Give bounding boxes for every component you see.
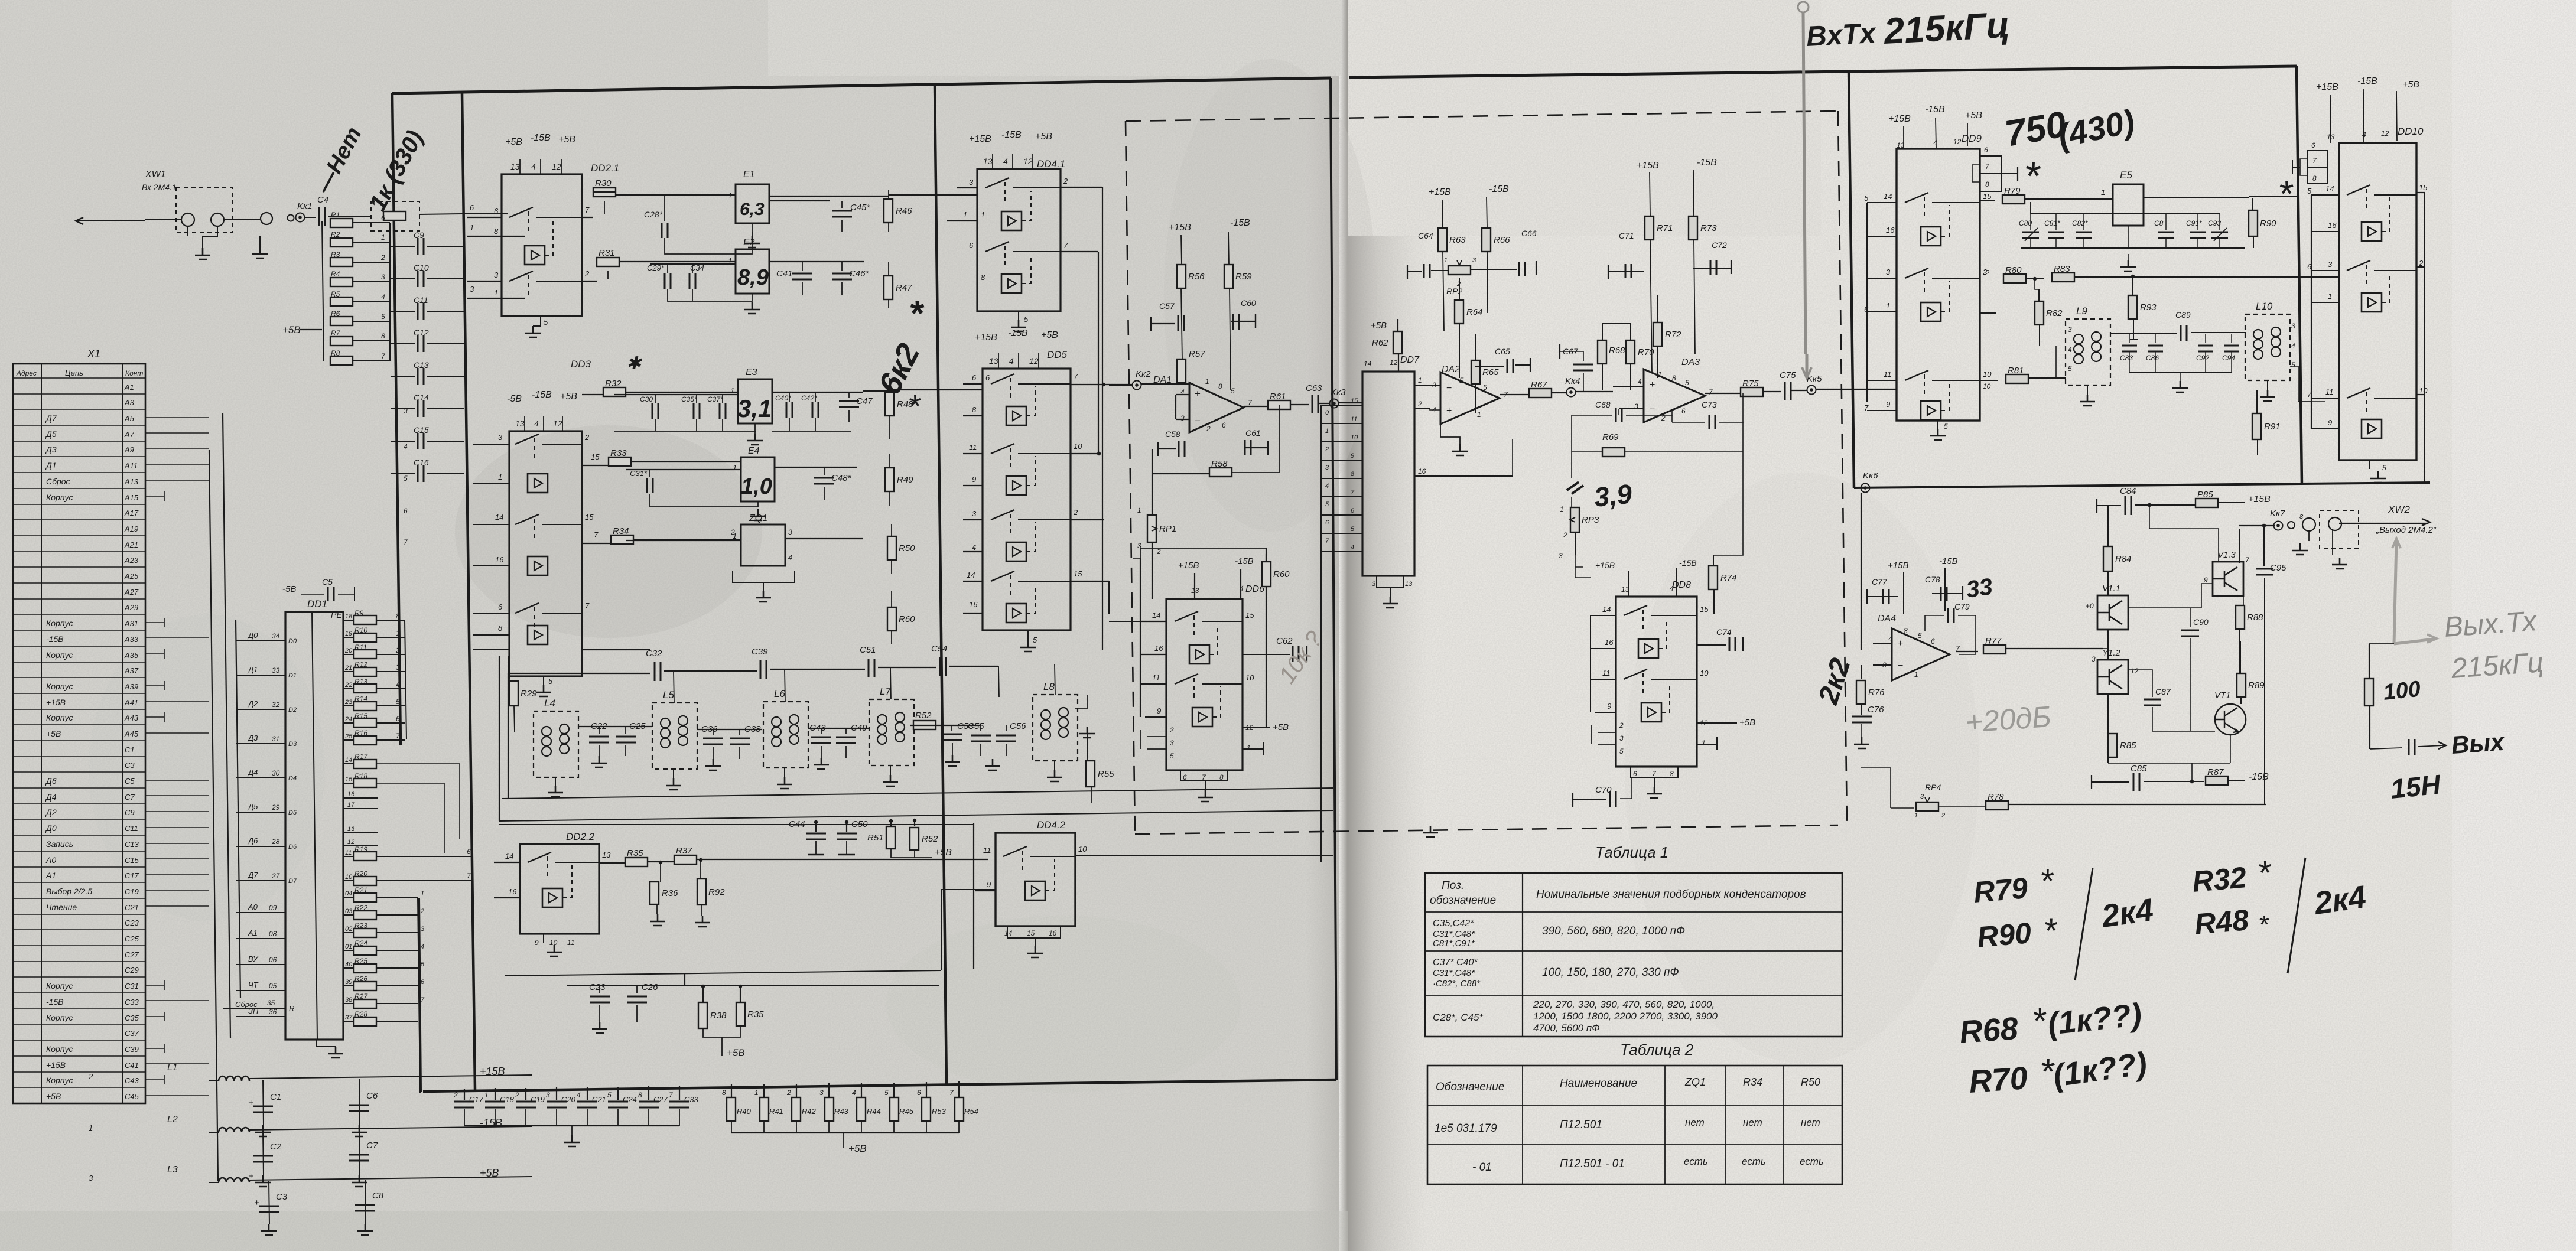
svg-text:3: 3 <box>1619 734 1624 742</box>
svg-text:5: 5 <box>1231 387 1235 395</box>
svg-text:9: 9 <box>1351 452 1354 460</box>
svg-text:6: 6 <box>1633 770 1637 778</box>
svg-text:С89: С89 <box>2175 310 2191 320</box>
crystal ZQ1 <box>626 513 863 602</box>
svg-text:R85: R85 <box>2120 741 2136 751</box>
svg-text:5: 5 <box>381 312 385 321</box>
svg-text:2: 2 <box>1619 721 1624 729</box>
svg-text:6: 6 <box>381 214 385 222</box>
svg-text:3: 3 <box>498 433 503 442</box>
capacitors C43 C49 <box>808 723 869 769</box>
svg-text:R90: R90 <box>1976 916 2032 954</box>
svg-text:L2: L2 <box>167 1115 178 1125</box>
resistor R60 at DD6 <box>1266 554 1267 562</box>
svg-text:8: 8 <box>2312 174 2317 183</box>
svg-text:С35: С35 <box>125 1014 139 1022</box>
svg-text:5: 5 <box>544 318 548 327</box>
svg-text:+5В: +5В <box>46 729 61 738</box>
svg-text:5: 5 <box>1325 501 1329 508</box>
svg-text:R32: R32 <box>605 379 622 389</box>
svg-text:С74: С74 <box>1716 627 1732 637</box>
svg-text:Д6: Д6 <box>247 836 258 845</box>
connector XW1 contacts <box>145 188 260 259</box>
svg-text:+5В: +5В <box>282 324 301 335</box>
svg-text:Корпус: Корпус <box>46 493 73 502</box>
capacitors C40* C42* C47 <box>772 392 873 431</box>
svg-text:R63: R63 <box>1449 235 1466 245</box>
svg-text:Чтение: Чтение <box>46 903 77 912</box>
svg-text:3: 3 <box>1170 739 1174 747</box>
svg-text:Kк4: Kк4 <box>1565 376 1580 386</box>
capacitors C23 C26 <box>589 982 658 1033</box>
svg-text:2: 2 <box>786 1089 791 1097</box>
svg-text:-15В: -15В <box>1697 158 1717 168</box>
svg-text:+15В: +15В <box>975 333 997 343</box>
svg-text:5: 5 <box>884 1089 889 1097</box>
svg-text:12: 12 <box>553 419 562 428</box>
svg-text:16: 16 <box>495 555 504 564</box>
svg-text:8: 8 <box>972 405 977 414</box>
svg-text:4: 4 <box>1638 377 1642 386</box>
wire RP3 to DD8 <box>1575 555 1583 567</box>
svg-text:С19: С19 <box>125 887 139 896</box>
svg-text:4: 4 <box>404 442 408 451</box>
right sheet frame bottom edge <box>1854 483 2430 488</box>
svg-text:34: 34 <box>272 632 280 640</box>
svg-text:14: 14 <box>1004 929 1013 937</box>
svg-text:С37: С37 <box>125 1029 139 1038</box>
transistor V1.2 <box>2097 660 2128 694</box>
svg-text:-5В: -5В <box>282 584 296 594</box>
top chain wire with C32 C39 C51 C54 <box>508 644 999 697</box>
svg-text:3: 3 <box>1559 552 1563 560</box>
svg-text:R10: R10 <box>354 626 367 634</box>
svg-text:1: 1 <box>2101 188 2105 197</box>
svg-text:2: 2 <box>1063 177 1068 185</box>
wire V1 chain <box>2103 569 2108 763</box>
svg-text:5: 5 <box>1033 636 1037 644</box>
svg-text:V1.3: V1.3 <box>2217 550 2236 560</box>
svg-text:1е5 031.179: 1е5 031.179 <box>1435 1122 1497 1135</box>
svg-text:С1: С1 <box>125 745 135 754</box>
svg-text:С17: С17 <box>469 1095 484 1104</box>
svg-text:4: 4 <box>1933 139 1937 147</box>
svg-text:Kк3: Kк3 <box>1331 387 1346 398</box>
svg-text:+15В: +15В <box>2316 82 2338 92</box>
svg-text:С20: С20 <box>561 1095 576 1104</box>
svg-text:Наименование: Наименование <box>1560 1077 1637 1090</box>
svg-text:4700, 5600 пФ: 4700, 5600 пФ <box>1533 1022 1600 1034</box>
svg-text:L6: L6 <box>774 688 785 699</box>
svg-text:1: 1 <box>1247 744 1251 752</box>
svg-text:L7: L7 <box>880 686 891 697</box>
IC DD3 <box>473 359 594 696</box>
svg-text:DD2.1: DD2.1 <box>591 162 619 174</box>
resistor R64 <box>1459 278 1460 301</box>
svg-text:3: 3 <box>1372 581 1376 588</box>
resistor R69 feedback <box>1572 415 1743 457</box>
svg-text:3: 3 <box>494 271 499 279</box>
svg-text:DD2.2: DD2.2 <box>566 831 595 842</box>
svg-text:1: 1 <box>1137 506 1141 514</box>
svg-text:R52: R52 <box>922 834 938 844</box>
svg-text:VT1: VT1 <box>2214 690 2231 701</box>
svg-text:С44: С44 <box>789 819 805 829</box>
svg-text:R68: R68 <box>1609 346 1625 356</box>
resistor R35b R37 R36 R92 cluster <box>599 846 988 927</box>
svg-text:DD7: DD7 <box>1400 355 1420 365</box>
svg-text:R36: R36 <box>662 888 678 898</box>
svg-text:R34: R34 <box>613 526 629 536</box>
svg-text:С35*: С35* <box>681 395 697 403</box>
svg-text:6: 6 <box>396 715 400 723</box>
handwritten R68 R70 notes <box>1959 997 2149 1100</box>
svg-text:Таблица 2: Таблица 2 <box>1620 1041 1694 1058</box>
svg-text:А5: А5 <box>124 414 135 423</box>
dashed selection box around middle section <box>1126 111 1838 121</box>
resistor R74 <box>1713 555 1714 566</box>
svg-text:14: 14 <box>1884 192 1892 201</box>
svg-text:Е2: Е2 <box>743 237 755 247</box>
svg-text:С37* С40*: С37* С40* <box>1433 957 1478 967</box>
svg-text:С36: С36 <box>701 724 718 734</box>
inductor L8 <box>1033 664 1095 781</box>
svg-text:А9: А9 <box>124 445 134 454</box>
svg-text:2к4: 2к4 <box>2311 879 2368 921</box>
svg-text:1: 1 <box>1205 377 1209 386</box>
svg-text:10: 10 <box>1078 845 1087 853</box>
svg-text:С63: С63 <box>1306 383 1322 393</box>
svg-text:+5В: +5В <box>727 1047 745 1058</box>
svg-text:22: 22 <box>344 682 352 689</box>
svg-text:3: 3 <box>2328 260 2333 269</box>
svg-text:1: 1 <box>1914 670 1918 679</box>
svg-text:С41: С41 <box>125 1061 139 1070</box>
capacitor C3 <box>269 1181 269 1224</box>
resistor R* optional dashed <box>371 201 508 231</box>
resistor R84 <box>2103 546 2112 571</box>
svg-text:Вх 2М4.1: Вх 2М4.1 <box>142 183 177 192</box>
svg-text:С3: С3 <box>276 1192 288 1202</box>
svg-text:А19: А19 <box>124 524 138 533</box>
svg-text:100: 100 <box>2382 677 2422 705</box>
IC DD2.2 <box>494 831 611 956</box>
svg-text:+: + <box>1195 388 1201 399</box>
svg-text:R29: R29 <box>521 689 537 699</box>
svg-text:С84: С84 <box>2120 486 2136 496</box>
svg-text:А7: А7 <box>124 430 135 439</box>
svg-text:D1: D1 <box>288 672 297 679</box>
resistor R33 <box>609 457 631 466</box>
transistor V1.1 <box>2097 595 2128 630</box>
svg-text:R55: R55 <box>1098 769 1114 779</box>
svg-text:1: 1 <box>381 233 385 242</box>
filter E4 <box>733 446 775 501</box>
svg-text:V1.1: V1.1 <box>2102 584 2120 594</box>
resistor R55 <box>1086 761 1095 787</box>
svg-text:6: 6 <box>404 507 408 515</box>
svg-text:R89: R89 <box>2248 680 2265 690</box>
DA2 ground bracket <box>1440 423 1460 444</box>
svg-text:3: 3 <box>819 1089 824 1097</box>
svg-text:+: + <box>248 1098 253 1108</box>
svg-text:С23: С23 <box>589 982 606 992</box>
pencil label Vyh Tx 215kHz <box>2443 605 2545 685</box>
svg-text:+5В: +5В <box>480 1167 499 1179</box>
svg-text:1: 1 <box>1477 411 1481 419</box>
svg-text:R34: R34 <box>1743 1076 1762 1088</box>
svg-text:Д1: Д1 <box>45 461 57 470</box>
node Kk7 and XW2 connector <box>2239 504 2437 569</box>
svg-text:7: 7 <box>1351 489 1355 496</box>
svg-text:С8: С8 <box>2154 219 2164 227</box>
svg-text:Д7: Д7 <box>45 413 57 423</box>
svg-text:С5: С5 <box>322 577 333 587</box>
svg-text:4: 4 <box>1432 406 1436 414</box>
resistors R17 R18 <box>343 752 460 853</box>
resistors R68 R70 R72 <box>1598 295 1681 390</box>
svg-text:8: 8 <box>1218 382 1222 390</box>
ground E2 <box>744 302 760 314</box>
wire lower horizontal second <box>567 985 939 986</box>
svg-text:DD8: DD8 <box>1672 580 1691 590</box>
svg-text:А25: А25 <box>124 572 139 581</box>
wire DD8 input route <box>1575 567 1591 712</box>
capacitor C28* <box>644 195 752 254</box>
svg-text:С31*,С48*: С31*,С48* <box>1433 968 1475 978</box>
svg-text:2: 2 <box>88 1072 93 1081</box>
svg-text:R19: R19 <box>354 845 367 853</box>
svg-text:7: 7 <box>585 206 590 214</box>
svg-text:12: 12 <box>1029 356 1039 366</box>
svg-text:R31: R31 <box>599 248 615 258</box>
svg-text:10: 10 <box>345 874 353 881</box>
svg-text:С91*: С91* <box>2186 219 2202 227</box>
svg-text:1: 1 <box>470 223 474 232</box>
resistor bank R40-R45 R53 R54 <box>722 1081 978 1154</box>
svg-text:29: 29 <box>271 803 280 812</box>
svg-text:ВУ: ВУ <box>248 954 259 963</box>
svg-text:11: 11 <box>1351 416 1357 423</box>
svg-text:5: 5 <box>1944 422 1948 431</box>
svg-text:10: 10 <box>2419 386 2428 395</box>
svg-text:R84: R84 <box>2115 554 2132 564</box>
svg-text:31: 31 <box>272 735 279 743</box>
svg-text:D0: D0 <box>288 638 297 645</box>
potentiometer RP1 <box>1137 474 1176 599</box>
svg-text:15: 15 <box>2419 183 2428 192</box>
svg-text:8,9: 8,9 <box>737 265 769 290</box>
svg-text:6: 6 <box>470 203 474 212</box>
svg-text:8: 8 <box>498 624 503 633</box>
long wire chain output <box>502 788 1333 799</box>
svg-text:+: + <box>254 1198 259 1208</box>
svg-text:С93: С93 <box>2208 219 2221 227</box>
svg-text:С60: С60 <box>1241 298 1256 308</box>
resistors R56 R59 with supplies <box>1169 218 1252 390</box>
svg-text:1: 1 <box>963 210 967 219</box>
svg-text:10: 10 <box>1983 382 1991 390</box>
potentiometer RP3 <box>1559 505 1599 560</box>
svg-text:С42*: С42* <box>801 394 817 402</box>
resistor R91 <box>2256 390 2258 413</box>
svg-text:1: 1 <box>89 1123 93 1132</box>
svg-text:11: 11 <box>1152 673 1160 682</box>
capacitor bank C9-C16 <box>391 230 464 546</box>
svg-text:С31*,С48*: С31*,С48* <box>1433 929 1475 939</box>
node Kk3 <box>1330 399 1339 408</box>
svg-text:12: 12 <box>2381 129 2389 138</box>
svg-text:А13: А13 <box>124 477 139 486</box>
svg-text:5: 5 <box>1170 752 1174 760</box>
svg-text:Конт: Конт <box>125 369 143 377</box>
svg-text:D3: D3 <box>288 741 297 748</box>
svg-text:R60: R60 <box>1273 569 1290 579</box>
svg-text:3: 3 <box>2092 655 2096 663</box>
capacitor C95 <box>2256 524 2286 804</box>
svg-text:·С82*, С88*: ·С82*, С88* <box>1433 979 1481 989</box>
svg-text:3: 3 <box>1472 257 1476 264</box>
capacitor C2 <box>263 1131 264 1175</box>
svg-text:D4: D4 <box>288 775 297 782</box>
svg-text:С17: С17 <box>125 871 139 880</box>
resistor R49 <box>885 468 894 491</box>
svg-text:5: 5 <box>421 961 425 968</box>
svg-text:3: 3 <box>1325 464 1329 471</box>
svg-text:R56: R56 <box>1188 272 1205 282</box>
long wire pair A <box>499 810 1333 821</box>
svg-text:С46*: С46* <box>849 269 870 279</box>
resistor R76 capacitor C76 <box>1852 665 1885 748</box>
capacitor row C80 C81 C82 C88 C91 C93 <box>2019 202 2245 271</box>
svg-text:9: 9 <box>1157 706 1161 715</box>
svg-text:20: 20 <box>344 647 353 654</box>
svg-text:С80: С80 <box>2019 219 2032 227</box>
wire to DD4.2 pin9 route <box>505 970 941 976</box>
svg-text:-15В: -15В <box>1925 105 1945 115</box>
svg-text:С31: С31 <box>125 982 139 991</box>
contact small circle <box>288 215 294 221</box>
svg-text:С78: С78 <box>1925 575 1940 584</box>
svg-text:С45: С45 <box>125 1092 139 1101</box>
svg-text:+5В: +5В <box>2402 80 2419 90</box>
svg-text:Сброс: Сброс <box>235 1000 258 1009</box>
op-amp DA3 <box>1613 357 1713 422</box>
svg-text:R50: R50 <box>1801 1076 1820 1088</box>
svg-text:6: 6 <box>1351 507 1355 514</box>
svg-text:С31*: С31* <box>630 469 648 478</box>
svg-text:5: 5 <box>1024 315 1029 324</box>
svg-text:10: 10 <box>549 939 558 947</box>
svg-text:+0: +0 <box>2086 602 2094 610</box>
svg-text:+5В: +5В <box>935 848 952 858</box>
svg-text:Kк7: Kк7 <box>2270 509 2285 519</box>
svg-text:ZQ1: ZQ1 <box>1684 1076 1706 1088</box>
wires DD4.1 outputs to right bus <box>1061 187 1105 650</box>
svg-text:С39: С39 <box>752 647 768 657</box>
svg-text:1: 1 <box>1886 301 1890 310</box>
left sheet frame left vertical A <box>392 93 401 745</box>
capacitor C1 <box>263 1080 264 1125</box>
svg-text:DD3: DD3 <box>571 359 591 370</box>
svg-text:3: 3 <box>470 285 474 294</box>
svg-text:25: 25 <box>344 733 353 740</box>
svg-text:С19: С19 <box>531 1095 545 1104</box>
svg-text:L8: L8 <box>1043 681 1055 692</box>
svg-text:Вых: Вых <box>2450 728 2506 759</box>
svg-text:+: + <box>1898 638 1903 649</box>
svg-text:23: 23 <box>344 699 353 706</box>
svg-text:R52: R52 <box>915 711 932 721</box>
svg-text:5: 5 <box>548 677 553 686</box>
resistors R71 R73 supplies DA3 <box>1637 158 1717 372</box>
svg-text:Корпус: Корпус <box>46 650 73 660</box>
svg-text:1: 1 <box>498 473 502 481</box>
svg-text:Д4: Д4 <box>247 768 258 777</box>
svg-text:-15В: -15В <box>1489 184 1509 194</box>
svg-text:2: 2 <box>1325 446 1329 453</box>
svg-text:R4: R4 <box>331 270 340 278</box>
svg-text:ЧТ: ЧТ <box>248 980 259 989</box>
resistor R30 <box>582 217 593 218</box>
wire V1.3 collector to Kk7 <box>2128 529 2243 608</box>
svg-text:Обозначение: Обозначение <box>1436 1081 1504 1093</box>
svg-text:10: 10 <box>1983 370 1992 379</box>
transistor VT1 <box>2214 690 2246 735</box>
svg-text:2: 2 <box>1417 400 1422 408</box>
X1 table row stub wires <box>145 418 209 1096</box>
svg-text:R72: R72 <box>1665 330 1681 340</box>
svg-text:Д5: Д5 <box>45 429 57 439</box>
svg-text:16: 16 <box>508 887 517 896</box>
svg-text:А21: А21 <box>124 540 138 549</box>
svg-text:С32: С32 <box>646 649 662 659</box>
capacitor C63 <box>1312 395 1318 413</box>
svg-text:R61: R61 <box>1270 392 1286 402</box>
svg-text:С12: С12 <box>414 328 429 337</box>
svg-text:2: 2 <box>1169 726 1174 734</box>
svg-text:15: 15 <box>591 452 600 461</box>
resistor R61 <box>1244 406 1268 407</box>
svg-text:R5: R5 <box>331 290 340 298</box>
svg-text:R40: R40 <box>737 1107 752 1116</box>
svg-text:R67: R67 <box>1531 380 1547 390</box>
svg-text:37: 37 <box>345 1014 353 1021</box>
svg-text:R2: R2 <box>331 230 340 239</box>
svg-text:1: 1 <box>494 288 498 297</box>
svg-text:R23: R23 <box>354 921 367 930</box>
svg-text:9: 9 <box>972 475 976 484</box>
filter E3 <box>730 367 772 423</box>
svg-text:С23: С23 <box>125 918 139 927</box>
wires into DD10 <box>2298 195 2311 429</box>
svg-text:−: − <box>1195 415 1201 426</box>
svg-text:4: 4 <box>1003 157 1008 166</box>
svg-text:А17: А17 <box>124 509 139 517</box>
svg-text:R42: R42 <box>802 1107 817 1116</box>
svg-text:С64: С64 <box>1418 231 1433 240</box>
svg-text:А33: А33 <box>124 635 139 644</box>
IC DD10 <box>2307 143 2428 483</box>
svg-text:30: 30 <box>272 769 280 777</box>
capacitors C83 C86 C92 C94 <box>2120 334 2239 392</box>
svg-text:3: 3 <box>2291 322 2295 330</box>
svg-text:28: 28 <box>271 838 280 846</box>
capacitor C89 <box>2110 310 2246 341</box>
svg-text:R78: R78 <box>1988 792 2004 802</box>
capacitors C22 C25 <box>578 721 652 767</box>
svg-text:11: 11 <box>1884 370 1892 379</box>
